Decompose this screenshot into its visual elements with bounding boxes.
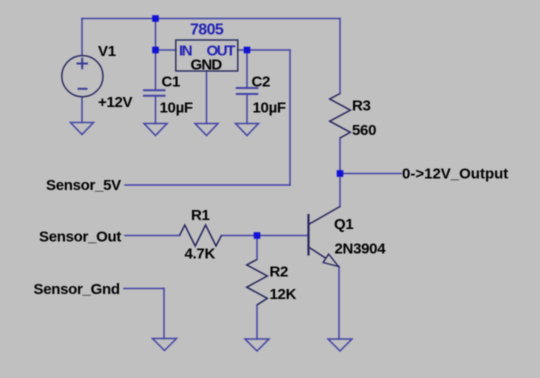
svg-text:R1: R1: [191, 207, 210, 224]
svg-text:GND: GND: [191, 57, 223, 74]
svg-text:Sensor_5V: Sensor_5V: [46, 177, 121, 194]
svg-text:C2: C2: [252, 74, 271, 91]
svg-text:V1: V1: [98, 43, 116, 60]
svg-text:4.7K: 4.7K: [185, 246, 216, 263]
svg-text:R2: R2: [270, 264, 289, 281]
svg-text:10µF: 10µF: [253, 100, 286, 117]
svg-text:R3: R3: [352, 98, 371, 115]
svg-text:7805: 7805: [190, 22, 224, 39]
svg-text:Sensor_Out: Sensor_Out: [39, 229, 121, 246]
svg-text:Sensor_Gnd: Sensor_Gnd: [34, 281, 120, 298]
svg-text:2N3904: 2N3904: [335, 241, 387, 258]
svg-text:C1: C1: [162, 74, 181, 91]
svg-text:10µF: 10µF: [160, 100, 193, 117]
svg-text:0->12V_Output: 0->12V_Output: [402, 166, 508, 183]
svg-text:Q1: Q1: [334, 216, 353, 233]
svg-text:+12V: +12V: [98, 94, 133, 111]
svg-text:12K: 12K: [270, 286, 297, 303]
svg-text:560: 560: [352, 122, 376, 139]
